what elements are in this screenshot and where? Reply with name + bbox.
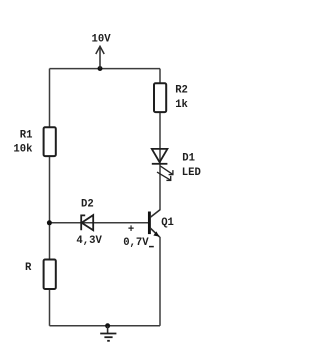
svg-text:4,3V: 4,3V: [76, 235, 102, 247]
wire: left branch upper segment: [49, 69, 51, 128]
svg-text:0,7V: 0,7V: [123, 237, 149, 249]
svg-text:+: +: [128, 224, 134, 236]
label - (base-emitter polarity minus): [149, 246, 154, 248]
svg-text:LED: LED: [182, 167, 201, 179]
svg-text:D2: D2: [81, 198, 94, 210]
LED D1: [152, 149, 168, 164]
wire: left branch middle segment: [49, 155, 51, 260]
node: divider junction dot: [47, 220, 52, 225]
svg-text:R2: R2: [175, 85, 188, 97]
svg-text:R: R: [25, 262, 32, 274]
zener diode D2: [81, 215, 93, 230]
svg-text:D1: D1: [182, 152, 195, 164]
transistor Q1: [149, 210, 160, 237]
wire: base wire from divider node to Q1 (passes through D2): [50, 222, 149, 224]
node: supply junction dot: [98, 66, 103, 71]
wire: emitter to bottom rail: [159, 237, 161, 326]
wire: left branch lower segment: [49, 289, 51, 326]
svg-text:10V: 10V: [92, 34, 112, 46]
ground symbol: [100, 323, 116, 341]
power supply arrow 10V: [96, 46, 104, 68]
svg-text:R1: R1: [20, 129, 33, 141]
wire: bottom ground rail: [50, 325, 161, 327]
wire: right branch upper segment: [159, 69, 161, 84]
svg-text:1k: 1k: [175, 99, 188, 111]
LED D1 emission arrows: [157, 166, 174, 181]
resistor R2: [154, 83, 166, 112]
svg-text:Q1: Q1: [161, 217, 174, 229]
wire: top supply rail: [50, 68, 161, 70]
svg-text:10k: 10k: [13, 144, 33, 156]
wire: right branch R2 to Q1 collector (passes through LED): [159, 112, 161, 211]
resistor R1: [44, 127, 56, 156]
resistor R: [44, 260, 56, 290]
